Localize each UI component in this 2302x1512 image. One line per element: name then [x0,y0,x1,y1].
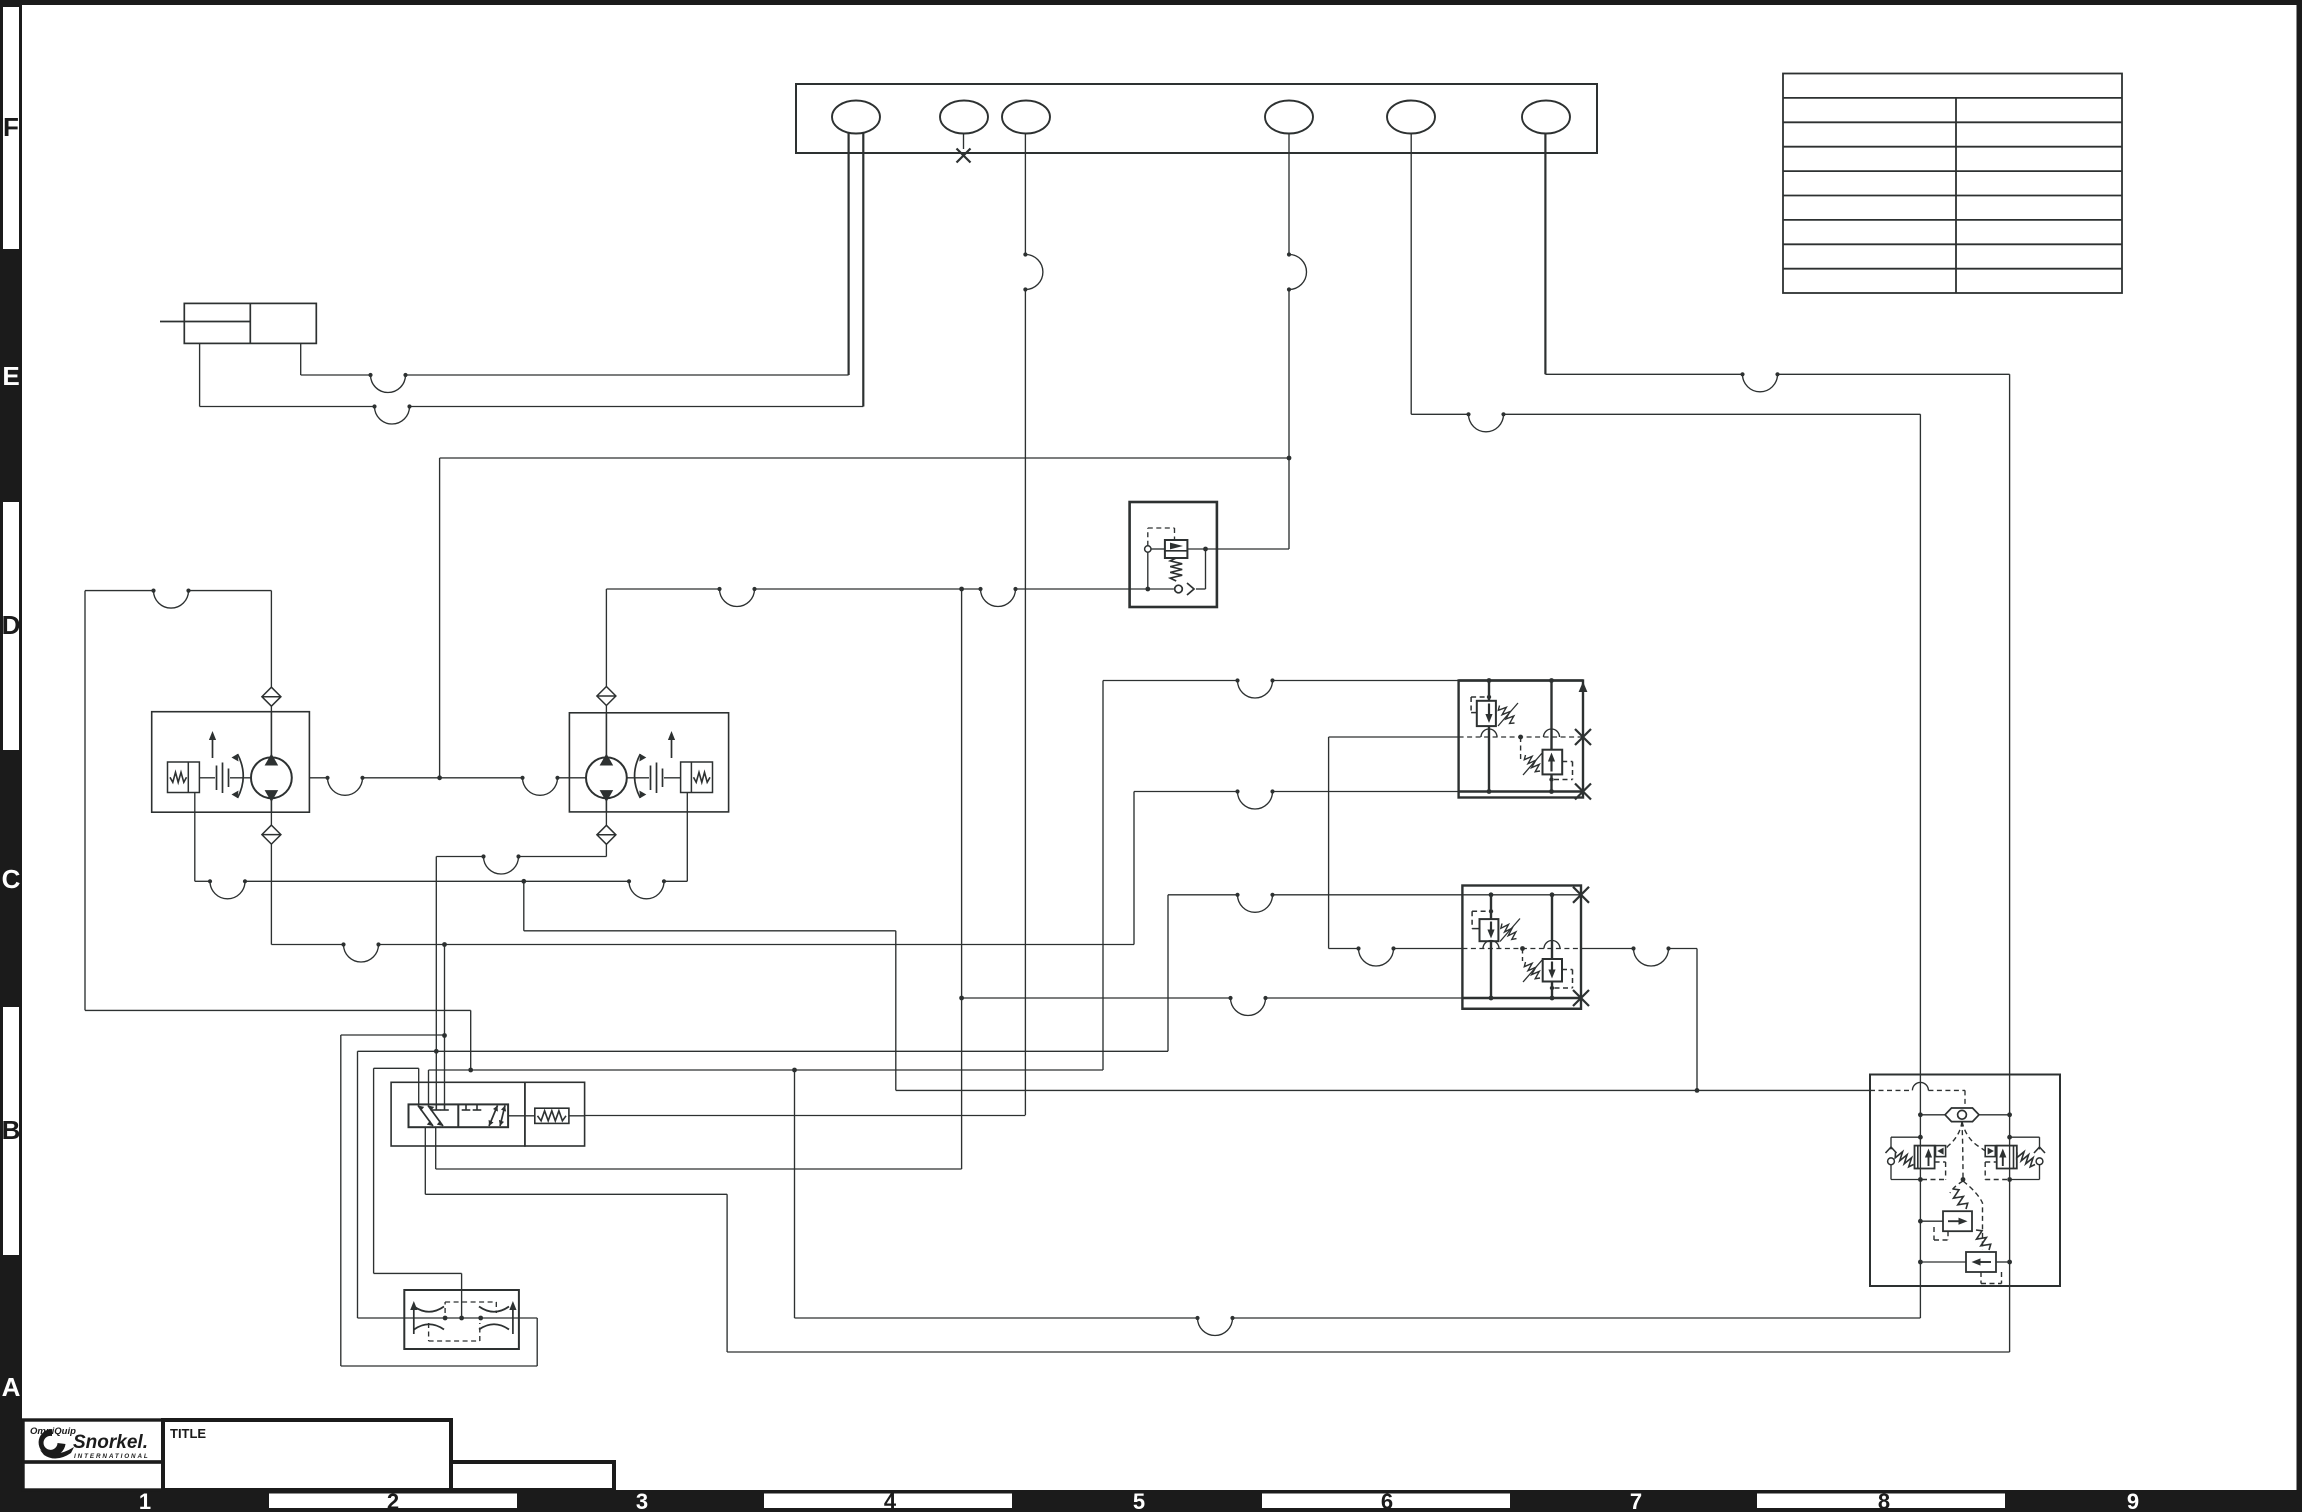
left unit check poppet [1937,1148,1943,1155]
wire brake feed x1920 [1919,414,1921,1318]
wire y1051 line [358,1050,1169,1052]
wire bars to motor [230,777,251,779]
CB2 pilot line y948 [1329,948,1359,950]
orifice symbol in relief box [1175,585,1183,593]
wire M2 top port [605,589,607,687]
RV-A spring [1953,1189,1968,1209]
M1 bottom make-up check diamond [262,825,281,844]
CB2 valve B spring [1524,962,1540,979]
wire manifold port1b drop [862,134,864,407]
manifold port ellipse 3 [1002,101,1050,134]
brake valve block box [1870,1075,2060,1287]
svg-text:E: E [2,361,19,391]
CB1 valve A spring [1498,706,1514,724]
wire x961 vertical [961,589,963,1169]
wire x373.6 drop [373,1068,375,1273]
wire port6 line y374 [1545,373,1742,375]
svg-text:8: 8 [1878,1489,1890,1512]
left unit bracket left lower [1890,1165,1892,1180]
wire brake pilot line y1090 [896,1089,1870,1091]
wire M1 top port [270,591,272,688]
svg-text:A: A [2,1372,21,1402]
left unit up arrow [1925,1149,1932,1167]
svg-text:5: 5 [1133,1489,1145,1512]
junction x2009/RV-B [2007,1260,2012,1265]
wire levelling line y458 [440,457,1289,459]
flow control dashed pilot upper [444,1302,446,1313]
wire x895.8 drop [895,931,897,1091]
wire M2 bottom port [605,812,607,825]
CB1 valve A body [1477,701,1496,726]
hose hop [978,587,1017,607]
title block lower-left box [23,1462,163,1490]
svg-text:3: 3 [636,1489,648,1512]
pilot hop over A [1481,729,1497,737]
hose hop [368,373,407,393]
right unit check poppet [1988,1148,1994,1155]
junction relief right port [1203,547,1208,552]
wire M2 top port 2 [605,706,607,713]
wire brake feed x2009 [2009,374,2011,1352]
junction y944/x444.5 [442,942,447,947]
junction x470.7/y1070 [468,1068,473,1073]
wire cylinder base-end line y406 [200,406,375,408]
flow control left arrow [410,1301,417,1334]
CB1 valve B lower riser [1550,774,1552,791]
pilot tree node [1961,1177,1966,1182]
CB1 bottom line inside (bold) [1459,790,1583,792]
flow control box [404,1290,519,1349]
CB1 valve B pilot dashes [1562,761,1572,763]
junction port4/levelling line [1287,456,1292,461]
wire spring box to envelope [569,1115,585,1117]
M1 control linkage bars [216,766,218,791]
frame bottom number ruler bar [22,1490,2302,1512]
brake pilot dashed tree [1946,1122,1986,1250]
manifold port ellipse 6 [1522,101,1570,134]
RV-B dashed tail [1980,1272,1982,1284]
wire relief right branch down [1205,549,1207,589]
CB2 valve B body [1543,959,1562,982]
wire M2 top line y589 [606,588,719,590]
RV-B arrow [1972,1258,1992,1265]
junction x436.3/y1051 [434,1049,439,1054]
wire x523.8 drop [523,881,525,931]
hose hop [481,854,520,874]
relief valve RV1 body [1165,540,1188,558]
junction CB2 A bottom [1489,996,1494,1001]
wire motor series line y778 [309,777,327,779]
motor M1 shaft line top [270,712,272,758]
M2 displacement up arrow [668,731,675,758]
hose hop [1235,789,1274,809]
junction flow control c [478,1316,483,1321]
CB2 bottom edge bold [1462,1008,1581,1010]
DV1 spring box [535,1108,569,1123]
wire M1 bottom port [270,812,272,825]
pilot hop over CB2 B [1544,941,1560,949]
motor M2 up triangle [600,754,614,766]
CB2 valve A adjust slash [1500,919,1520,942]
DV1 left position crossed arrows [418,1106,443,1127]
wire cylinder rod-end line y375 [301,374,371,376]
svg-text:Snorkel.: Snorkel. [73,1432,148,1453]
junction left unit bottom [1918,1177,1923,1182]
wire body to spring box [508,1115,535,1117]
left unit bracket top [1891,1136,1920,1138]
svg-text:INTERNATIONAL: INTERNATIONAL [74,1453,150,1460]
hose hop [372,404,411,424]
hose hop [1195,1316,1234,1336]
wire x727.1 drop [726,1194,728,1352]
motor M1 displacement actuator [168,762,200,793]
svg-text:C: C [2,864,21,894]
wire motor to bars M2 [627,777,649,779]
wire port3 to valve spring line y1115 [585,1115,1026,1117]
left unit spring [1895,1152,1913,1167]
wire orifice to right branch [1196,588,1206,590]
svg-text:2: 2 [387,1489,399,1512]
junction CB1 A top [1487,678,1492,683]
directional valve body [409,1104,509,1127]
junction motor series line [437,775,442,780]
CB1 valve B body [1543,750,1563,775]
wire cylinder rod-end port down [300,343,302,375]
CB2 valve B adjust slash [1523,959,1543,982]
wire port5 line y414 [1411,413,1468,415]
wire y1194 line [425,1193,727,1195]
M1 rotation arc arrow [238,754,244,798]
wire far left vertical x85 [84,591,86,1011]
junction CB2 A top [1489,892,1494,897]
CB1 feed riser x1134 top line y791 [1134,791,1238,793]
svg-text:B: B [2,1115,21,1145]
pilot hop over B [1544,729,1560,737]
svg-text:OmniQuip: OmniQuip [30,1426,76,1437]
motor M2 shaft line top [605,713,607,758]
junction x444.5/y1035 [442,1033,447,1038]
wire x428.5 valve port drop [428,1070,430,1104]
hose hop [1235,893,1274,913]
wire x1134 riser [1133,792,1135,945]
CB1 pilot branch [1520,737,1522,760]
CB2 valve B down arrow [1548,962,1555,979]
junction CB2 B top [1550,892,1555,897]
wire CB2 top line y895 [1168,894,1238,896]
frame top border [0,0,2302,5]
junction CB1 B bottom [1549,789,1554,794]
CB1 pilot line y737 [1329,736,1459,738]
wire pilot circle to body [1151,548,1165,550]
RV-A dashed tail [1947,1231,1949,1240]
junction relief bottom [1145,587,1150,592]
right unit valve body [1997,1146,2017,1169]
wire manifold port6 drop x1545 [1544,134,1546,375]
CB2 valve B pilot dashes [1562,969,1573,971]
directional valve spring compartment [525,1082,585,1146]
wire y1068 stub line [374,1067,419,1069]
svg-text:9: 9 [2127,1489,2139,1512]
CB2 bottom line bold segment [1462,997,1581,999]
wire y458 drop to motor line x439.6 [439,458,441,778]
DV1 spring [538,1111,567,1121]
pilot hop over x1920 [1912,1082,1928,1090]
CB2 valve B riser [1551,895,1553,959]
wire x470.7 drop [470,1010,472,1070]
wire y1352 long line [727,1351,2010,1353]
left unit breather chevron [1886,1147,1897,1153]
directional valve envelope [391,1082,525,1146]
cylinder C1 [184,303,316,343]
wire y1169 line [436,1168,962,1170]
hose hop [1023,252,1043,291]
right unit up arrow [1999,1149,2006,1167]
CB1 port arrow up [1579,682,1588,693]
title block logo box [23,1420,163,1462]
brake pilot dashed inside [1870,1089,1912,1091]
flow control right arrow [509,1301,516,1334]
hose hop [208,879,247,899]
junction left unit top [1918,1135,1923,1140]
wire M1 actuator drop [194,793,196,882]
hose hop [1235,678,1274,698]
CB2 valve A riser [1490,895,1492,919]
M2 rotation arc arrow [635,754,641,798]
wire x537.2 riser [536,1318,538,1366]
wire x794.5 drop [794,1070,796,1318]
CB1 valve B spring [1524,755,1540,772]
wire M1 top port 2 [270,706,272,712]
CB2 valve A body [1480,919,1499,941]
right unit bracket right lower [2039,1165,2041,1180]
wire y1273 line [374,1272,462,1274]
CB2 pilot branch [1522,949,1524,962]
junction x1920/RV-B [1918,1260,1923,1265]
left unit bracket bottom [1891,1179,1920,1181]
left unit valve body [1915,1146,1935,1169]
junction CB1 A bottom [1487,789,1492,794]
wire to RV-B right [1996,1261,2010,1263]
wire x340.8 drop [340,1035,342,1366]
DV1 blocked ports T symbols [432,1104,481,1110]
test port X CB2 bottom [1573,990,1589,1006]
motor M1 circle [251,757,292,798]
test port X CB2 top [1573,887,1589,903]
shuttle valve [1920,1114,1945,1116]
title block TITLE box [163,1420,451,1490]
wire y1035 line [341,1034,445,1036]
left unit pilot dashes [1935,1161,1946,1163]
wire manifold port1a drop [847,134,849,376]
wire y1318 long line [795,1317,1198,1319]
junction shuttle right [2007,1112,2012,1117]
hose hop [325,776,364,796]
motor M1 shaft line bottom [270,798,272,812]
hose hop [1740,372,1779,392]
manifold port ellipse 1 [832,101,880,134]
wire M1 top line y590 [85,590,154,592]
wire M1 bottom line y944 [271,944,343,946]
hose hop [1287,252,1307,291]
right unit spring [2017,1152,2035,1167]
wire M1 bottom port 2 [270,844,272,944]
hose hop [627,879,666,899]
left unit bracket left upper [1890,1137,1892,1149]
svg-text:4: 4 [884,1489,897,1512]
wire M2 bottom port 2 [605,844,607,856]
wire CB1 top line y680 [1103,680,1238,682]
wire manifold port5 drop x1411 [1410,134,1412,415]
CB1 valve A down arrow [1485,704,1492,724]
junction flow control a [443,1316,448,1321]
motor M1 up triangle [265,754,279,766]
wire x357.5 drop [357,1051,359,1318]
junction y1090/x1697 [1695,1088,1700,1093]
CB2 valve A lower riser [1490,941,1492,998]
DV1 bottom port T drop [435,1127,437,1169]
hose hop [520,776,559,796]
hose hop [341,942,380,962]
svg-text:D: D [2,610,21,640]
CB1 block box [1459,681,1583,798]
wire y1366 line [341,1365,537,1367]
test port X CB1 pilot [1575,729,1591,745]
hose hop [1466,412,1505,432]
CB1 top line inside (bold) [1459,679,1583,681]
RV-A arrow [1948,1218,1968,1225]
motor M2 displacement actuator [681,762,713,793]
Snorkel / OmniQuip logo [30,1426,150,1460]
manifold port ellipse 5 [1387,101,1435,134]
motor M2 circle [586,757,627,798]
cylinder rod [160,321,250,323]
CB2 bottom line y998 [962,997,1231,999]
CB1 valve B up arrow [1548,753,1555,772]
test port X CB1 bottom [1575,784,1591,800]
wire x461.6 drop into flow control [461,1273,463,1318]
parts table [1783,74,2122,294]
hose hop [717,587,756,607]
wire manifold port3 drop x1025 [1024,134,1026,255]
junction right unit bottom [2007,1177,2012,1182]
manifold block [796,84,1597,153]
junction y589/x961 [959,587,964,592]
flow restrictor right [479,1307,509,1330]
junction x961/y998 [959,996,964,1001]
motor M2 shaft line bottom [605,798,607,812]
CB1 valve B riser [1550,681,1552,750]
wire x444.5 drop to valve [444,945,446,1105]
manifold port ellipse 2 [940,101,988,134]
junction x1920/RV-A [1918,1219,1923,1224]
svg-text:6: 6 [1381,1489,1393,1512]
wire y1010 line [85,1009,471,1011]
wire manifold port4 drop x1289 [1288,134,1290,255]
wire x1168 riser [1167,895,1169,1052]
flow control dashed pilot lower [428,1323,430,1341]
relief valve flow arrow [1170,543,1183,550]
manifold port ellipse 4 [1265,101,1313,134]
RV-B spring [1976,1230,1991,1250]
relief valve pilot dashed line [1147,528,1149,546]
wire relief right port [1187,548,1289,550]
M2 top make-up check diamond [597,687,616,706]
junction shuttle left [1918,1112,1923,1117]
wire x436.3 drop to valve [435,857,437,1105]
right unit bracket right upper [2039,1137,2041,1149]
wire x1103 riser [1102,681,1104,1071]
frame right border [2297,0,2302,1512]
wire y930.8 line [524,930,896,932]
DV1 bottom port P drop [424,1127,426,1194]
CB1 valve A adjust slash [1498,703,1518,726]
junction y881/x523.8 [521,879,526,884]
wire x418.7 valve port drop [418,1068,420,1104]
wire to RV-B left [1920,1261,1966,1263]
pilot hop over CB2 A [1483,941,1499,949]
svg-text:1: 1 [139,1489,151,1512]
relief valve pilot port circle [1145,546,1151,552]
motor M1 down triangle [265,790,279,802]
flow restrictor left [414,1307,444,1330]
svg-text:7: 7 [1630,1489,1642,1512]
right unit check square [1985,1146,1995,1157]
CB2 valve A down arrow [1487,922,1494,939]
wire actuator to bars [199,777,215,779]
right unit bracket bottom [2010,1179,2040,1181]
CB1 valve A pilot dashes [1471,712,1477,714]
junction flow control b [459,1316,464,1321]
drive motor M1 enclosure [152,712,310,813]
frame left zone ruler bar [0,0,22,1512]
wire M2 bottom line y856 [436,856,483,858]
M2 actuator spring [694,772,711,782]
motor M2 down triangle [600,790,614,802]
M2 bottom make-up check diamond [597,825,616,844]
right unit breather chevron [2034,1147,2045,1153]
relief valve spring [1170,558,1182,581]
CB2 valve A pilot dashes [1472,928,1479,930]
junction y1070/x794.5 [792,1068,797,1073]
svg-text:F: F [3,112,19,142]
svg-text:TITLE: TITLE [170,1426,206,1441]
hose hop [1356,946,1395,966]
CB1 valve A lower riser [1488,726,1490,791]
hose hop [151,589,190,609]
wire flow control center line [358,1317,538,1319]
wire bars to actuator M2 [664,777,681,779]
right unit pilot dashes [1985,1161,1997,1163]
plugged port symbol below port 2 [963,134,965,150]
junction CB2 pilot mid [1520,946,1525,951]
wire to RV-A [1920,1220,1943,1222]
DV1 right position arrows [489,1106,505,1127]
CB1 valve A riser [1488,681,1490,701]
M1 displacement up arrow [209,731,216,758]
wire cylinder base-end port down [199,343,201,406]
title block small right box [451,1462,614,1490]
M2 control linkage bars [650,766,652,791]
M1 top make-up check diamond [262,687,281,706]
M1 actuator spring [170,772,187,782]
junction CB2 B bottom [1550,996,1555,1001]
left unit check square [1936,1146,1946,1157]
junction CB1 pilot mid [1518,735,1523,740]
junction right unit top [2007,1135,2012,1140]
wire y1070 line [429,1069,1104,1071]
cylinder piston [249,303,251,343]
wire pilot drop [1147,552,1149,589]
